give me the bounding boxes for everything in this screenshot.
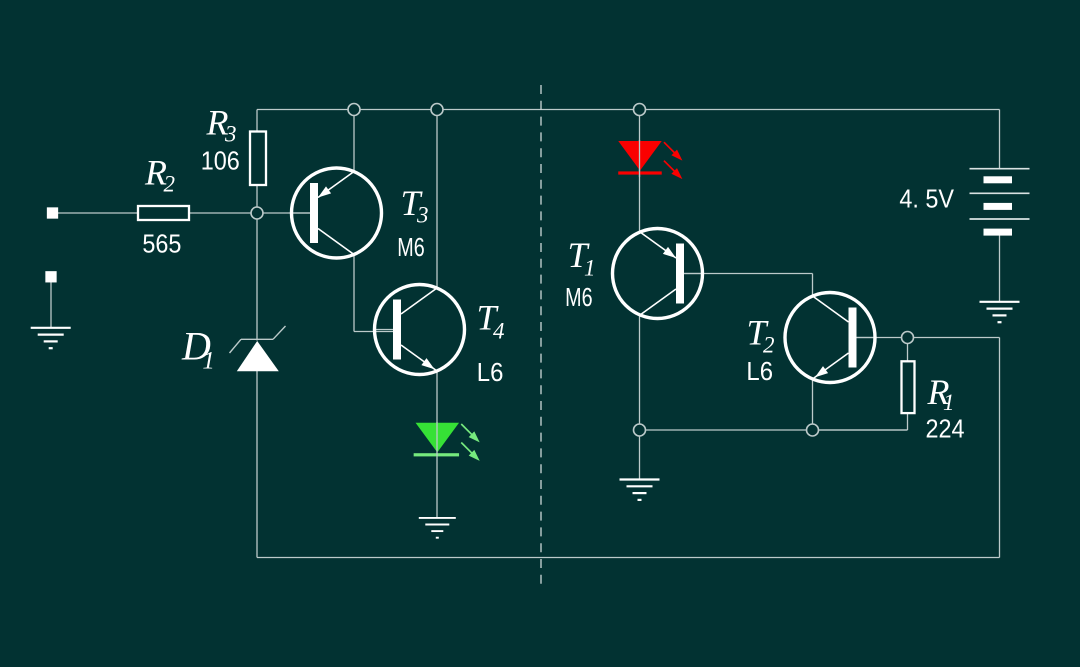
wire node D down through red LED to T1 emitter <box>639 110 641 233</box>
svg-text:4. 5V: 4. 5V <box>899 185 954 213</box>
wire R2 to node A <box>189 212 257 214</box>
svg-text:L6: L6 <box>746 357 773 386</box>
wire top bus left corner down to R3 <box>256 110 258 133</box>
wire battery stem from top bus <box>999 110 1001 169</box>
transistor T1 (PNP, mirrored) <box>613 229 704 319</box>
wire T1 collector down to node E <box>639 315 641 430</box>
wire node B down to T3 emitter <box>353 110 355 172</box>
wire pad2 stem down to ground <box>50 282 52 328</box>
resistor R2 <box>138 206 189 220</box>
ground under green LED <box>419 518 456 538</box>
wire node E to ground <box>639 430 641 479</box>
wire top bus <box>257 109 1000 111</box>
svg-text:L6: L6 <box>477 358 504 387</box>
node B junction <box>348 104 360 116</box>
svg-text:D1: D1 <box>181 324 215 375</box>
input pad P1 <box>47 207 58 218</box>
wire node F to R1 bottom corner <box>813 429 908 431</box>
wire node C down to T4 collector <box>436 110 438 289</box>
wire input pad to R2 <box>57 212 138 214</box>
wire T3 collector down <box>353 254 355 331</box>
wire R3 bottom to node A <box>256 185 258 214</box>
ground under T1 emitter <box>620 480 660 500</box>
node G junction (R1 top) <box>902 332 914 344</box>
green LED D3 <box>414 423 480 461</box>
transistor T4 (NPN) <box>374 285 465 375</box>
node F junction <box>807 424 819 436</box>
wire bottom bus <box>257 557 1000 559</box>
wire battery bottom to ground <box>999 236 1001 302</box>
red LED D2 <box>618 141 682 179</box>
node E junction <box>634 424 646 436</box>
svg-text:M6: M6 <box>565 282 592 311</box>
wire node A to T3 base <box>257 212 311 214</box>
node C junction <box>431 104 443 116</box>
node D junction <box>634 104 646 116</box>
wire to T4 base <box>354 331 395 333</box>
wire D1 anode down to bottom bus <box>256 371 258 558</box>
dashed divider line <box>540 85 542 589</box>
wire corner up to R1 bottom <box>907 413 909 430</box>
wire T4 emitter down to green LED <box>436 371 438 424</box>
wire overlay through red LED <box>639 140 641 177</box>
wire T1 base to right <box>683 273 813 275</box>
wire T2 base row right segment <box>856 337 1000 339</box>
wire T2 emitter down to node F <box>812 379 814 430</box>
wire right edge vertical <box>999 338 1001 558</box>
svg-text:224: 224 <box>925 415 964 443</box>
transistor T3 (PNP) <box>291 168 382 258</box>
svg-text:106: 106 <box>201 147 240 175</box>
resistor R1 <box>902 361 915 413</box>
wire node A down to D1 cathode <box>256 213 258 341</box>
wire down to T2 collector <box>812 274 814 297</box>
svg-text:565: 565 <box>142 230 181 258</box>
wire mid bottom bus node E to node F <box>640 429 908 431</box>
ground left input <box>31 328 71 348</box>
wire node G to R1 top <box>907 344 909 362</box>
svg-text:M6: M6 <box>397 233 424 262</box>
transistor T2 (NPN, mirrored) <box>785 293 876 383</box>
zener diode D1 <box>230 326 286 371</box>
input pad P2 <box>45 271 56 282</box>
node A junction <box>251 207 263 219</box>
resistor R3 <box>250 132 266 186</box>
wire green LED to ground <box>436 455 438 518</box>
ground under battery <box>980 302 1020 322</box>
wire overlay through green LED <box>436 422 438 456</box>
battery B1 4.5V <box>970 169 1030 236</box>
